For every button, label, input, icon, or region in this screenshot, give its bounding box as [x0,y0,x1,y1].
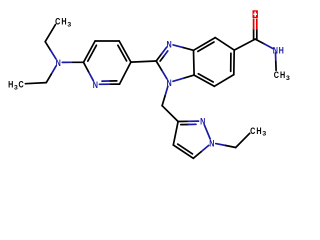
svg-text:C: C [250,126,256,136]
carbonyl C=O [254,19,257,39]
nitrogen N3 (benzimidazole) [167,40,172,50]
svg-text:H: H [61,16,66,26]
pyrazole C3=N2 [178,121,199,125]
svg-text:H: H [280,70,285,80]
oxygen O (amide carbonyl) [253,10,258,18]
chemical structure drawing: N,N-diethylaminopyridine / benzimidazole-5-carboxamide / N-ethylpyrazole molecule [0,0,300,169]
svg-text:N: N [200,117,205,127]
pyrazole N1-C5 [193,145,208,158]
svg-text:3: 3 [286,75,290,82]
pyridine C5-C6 [120,62,131,84]
benzimidazole N3-C3a [173,45,193,50]
pyridine C3-C4 [95,40,119,42]
methyl CH3 label (diethylamino ethyl 1) [55,16,71,28]
pyridine C4=C5 [118,41,131,62]
bond NH-CH3 [275,53,278,70]
svg-text:H: H [279,46,284,56]
svg-text:H: H [8,80,13,90]
nitrogen N1 (pyrazole) [209,138,214,148]
bond CH2-N (ethyl 1) [45,42,56,59]
svg-text:N: N [167,78,172,88]
pyridine C2=C3 [84,41,97,62]
methyl H3C label (diethylamino ethyl 2) [8,80,24,92]
svg-text:N: N [273,46,278,56]
bond N-CH2 (ethyl 2) [46,66,56,83]
nitrogen N (diethylamino) [56,58,61,68]
bond CH3-CH2 (ethyl 1) [45,25,55,42]
benzo C4-C5 [215,38,234,51]
bond N-pyridine C2 [62,61,83,63]
pyridine N1-C2 [84,62,94,81]
methyl CH3 label (N-methylamide) [274,70,290,82]
svg-text:C: C [274,70,280,80]
pyrazole C5=C4 [173,144,193,158]
bond N1-CH2 (N-ethyl) [216,144,236,148]
svg-text:3: 3 [262,131,266,138]
benzimidazole C2=N3 [156,47,168,61]
bond C5-carbonyl C [234,39,255,50]
benzo C6-C7 [214,75,234,87]
benzo C3a=C4 [194,38,216,52]
methyl CH3 label (pyrazole N-ethyl) [250,126,266,138]
svg-text:N: N [167,40,172,50]
pyrazole N2-N1 [204,125,210,139]
pyrazole C4-C3 [173,122,178,146]
svg-text:N: N [93,80,98,90]
bond CH2-CH3 (N-ethyl) [236,133,250,147]
benzimidazole C7a-N1 [173,75,194,81]
svg-text:C: C [19,80,25,90]
pyridine C6=N1 [99,81,119,84]
svg-text:H: H [256,126,261,136]
bond CH2-pyrazole C3 [162,106,178,122]
bond pyridine-benzimidazole [131,61,156,62]
svg-text:3: 3 [67,21,71,28]
nitrogen N1 (benzimidazole) [167,78,172,88]
benzo C5=C6 [231,50,235,75]
benzimidazole C3a-C7a fusion [193,50,196,75]
svg-text:N: N [209,138,214,148]
benzimidazole N1-C2 [156,61,167,79]
bond carbonyl C-NH [255,39,273,48]
benzo C7=C7a [194,74,214,87]
svg-text:3: 3 [14,84,18,91]
bond CH2-CH3 (ethyl 2) [25,83,46,84]
svg-text:N: N [56,58,61,68]
bond N1-CH2 linker [162,86,168,105]
nitrogen N (pyridine N1) [93,80,98,90]
amide NH label [273,46,284,56]
nitrogen N2 (pyrazole) [200,117,205,127]
svg-text:C: C [55,16,61,26]
